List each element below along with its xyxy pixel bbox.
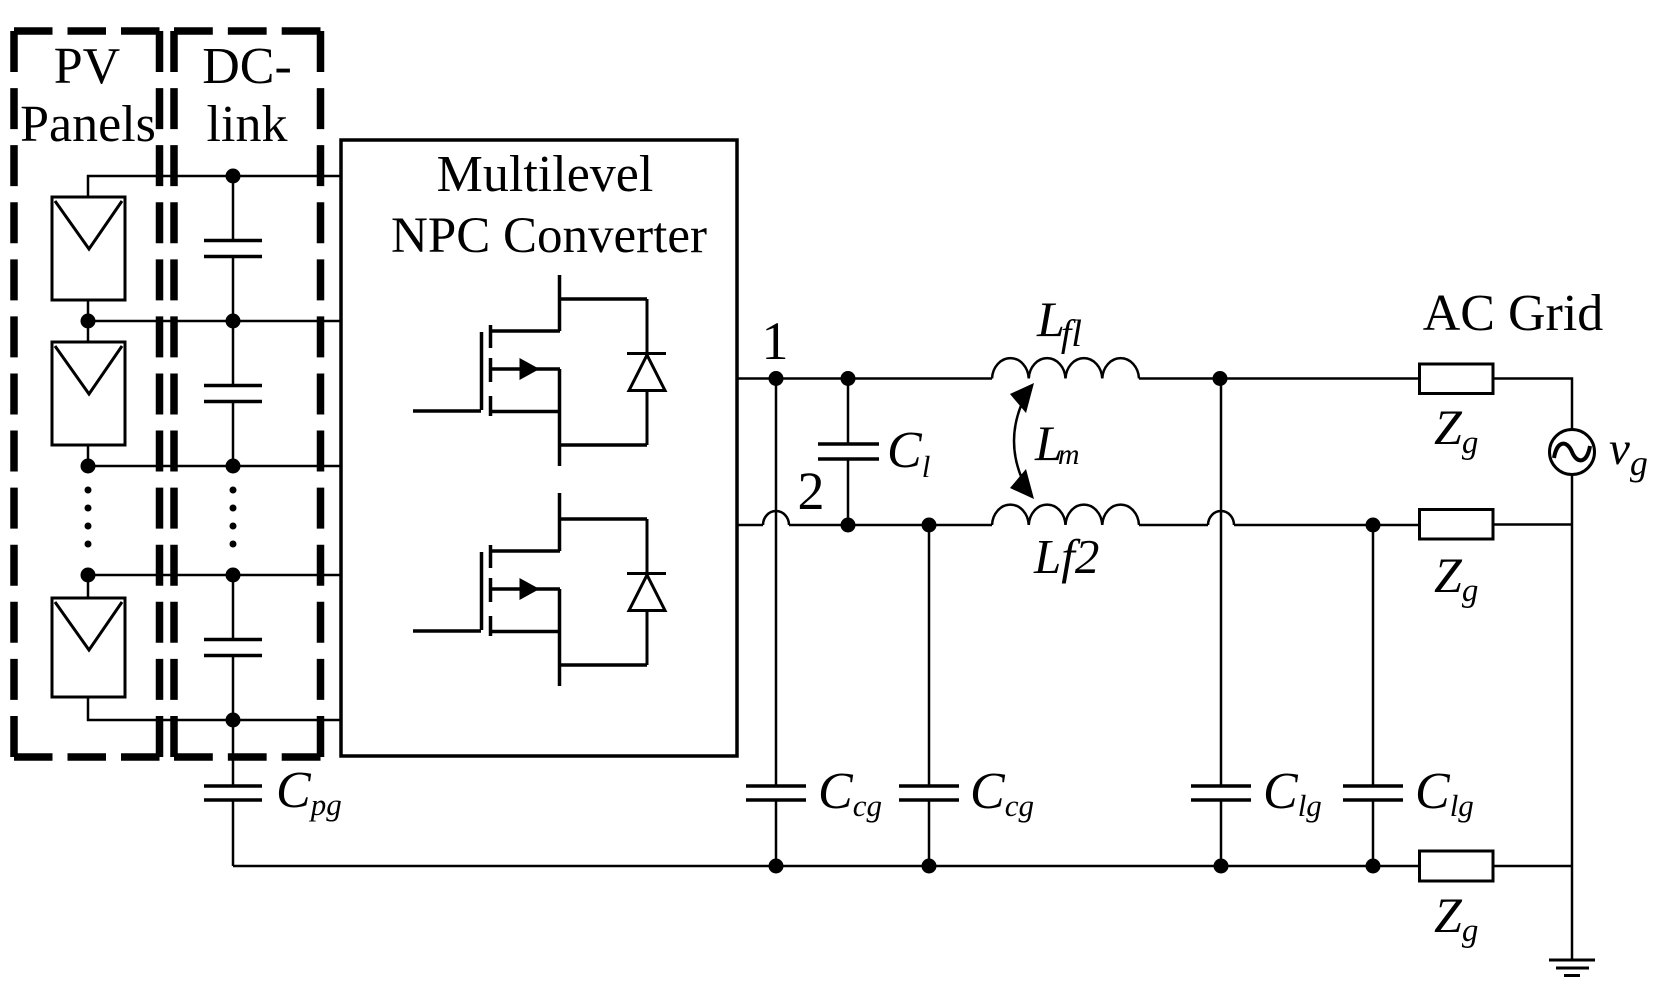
svg-text:AC Grid: AC Grid bbox=[1423, 285, 1604, 342]
svg-text:Multilevel: Multilevel bbox=[437, 146, 654, 203]
svg-text:Panels: Panels bbox=[20, 96, 156, 153]
svg-text:NPC Converter: NPC Converter bbox=[391, 208, 707, 264]
svg-text:link: link bbox=[207, 96, 288, 153]
svg-text:1: 1 bbox=[762, 311, 789, 371]
svg-text:2: 2 bbox=[798, 461, 825, 521]
svg-text:Lf2: Lf2 bbox=[1033, 529, 1099, 584]
svg-text:PV: PV bbox=[54, 38, 120, 95]
svg-text:DC-: DC- bbox=[202, 38, 292, 95]
